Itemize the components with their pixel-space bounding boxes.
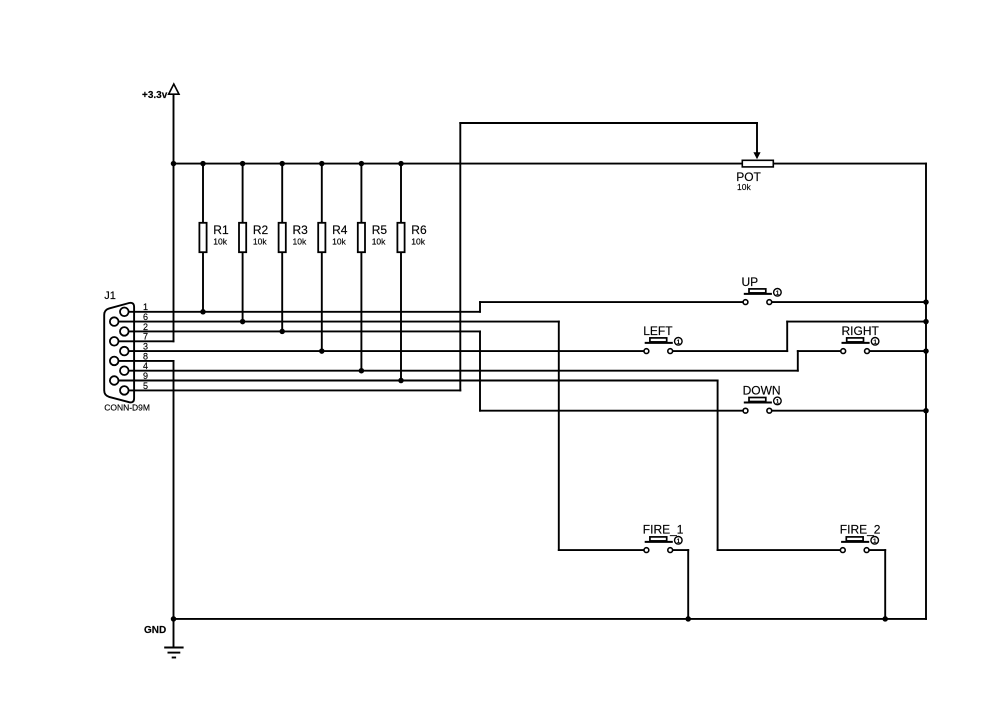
svg-text:1: 1 [143,302,148,312]
svg-text:FIRE_2: FIRE_2 [840,523,881,537]
svg-text:10k: 10k [213,237,227,247]
svg-text:8: 8 [143,351,148,361]
svg-text:10k: 10k [372,237,386,247]
svg-text:R5: R5 [372,223,388,237]
svg-text:4: 4 [143,361,148,371]
svg-text:9: 9 [143,371,148,381]
svg-text:1: 1 [776,398,780,405]
svg-text:+3.3v: +3.3v [142,90,168,101]
svg-text:7: 7 [143,332,148,342]
svg-text:CONN-D9M: CONN-D9M [104,402,150,412]
svg-text:1: 1 [776,290,780,297]
svg-text:5: 5 [143,381,148,391]
svg-text:10k: 10k [293,237,307,247]
svg-text:1: 1 [677,339,681,346]
svg-text:6: 6 [143,312,148,322]
svg-text:DOWN: DOWN [743,384,781,398]
svg-text:1: 1 [873,339,877,346]
svg-text:R3: R3 [293,223,309,237]
svg-text:R2: R2 [253,223,269,237]
svg-text:10k: 10k [411,237,425,247]
svg-text:10k: 10k [332,237,346,247]
svg-text:10k: 10k [737,182,751,192]
svg-text:3: 3 [143,342,148,352]
svg-text:R1: R1 [213,223,229,237]
svg-text:10k: 10k [253,237,267,247]
svg-text:2: 2 [143,322,148,332]
svg-text:R6: R6 [411,223,427,237]
svg-text:LEFT: LEFT [643,324,673,338]
svg-text:GND: GND [144,625,166,636]
svg-text:RIGHT: RIGHT [842,324,880,338]
svg-text:1: 1 [873,538,877,545]
svg-text:J1: J1 [104,290,116,302]
svg-text:1: 1 [677,538,681,545]
svg-text:UP: UP [742,275,759,289]
svg-text:FIRE_1: FIRE_1 [643,523,684,537]
svg-text:R4: R4 [332,223,348,237]
